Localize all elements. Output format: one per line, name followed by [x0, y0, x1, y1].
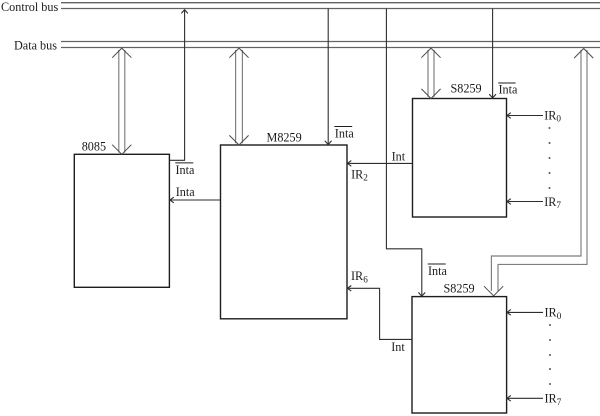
- svg-text:Control bus: Control bus: [1, 0, 58, 14]
- svg-text:8085: 8085: [82, 140, 106, 154]
- svg-text:S8259: S8259: [444, 281, 475, 295]
- svg-text:IR0: IR0: [545, 306, 562, 321]
- svg-text:Inta: Inta: [428, 264, 448, 278]
- svg-text:IR2: IR2: [351, 167, 368, 182]
- svg-text:Inta: Inta: [335, 126, 355, 140]
- svg-text:IR0: IR0: [544, 108, 561, 123]
- svg-text:Data bus: Data bus: [14, 38, 57, 52]
- svg-text:Inta: Inta: [176, 185, 196, 199]
- svg-text:IR6: IR6: [351, 269, 368, 284]
- svg-text:Int: Int: [391, 340, 405, 354]
- svg-text:Inta: Inta: [499, 83, 519, 97]
- svg-text:S8259: S8259: [451, 82, 482, 96]
- svg-text:IR7: IR7: [545, 391, 562, 406]
- svg-text:Inta: Inta: [176, 163, 196, 177]
- svg-text:IR7: IR7: [544, 195, 561, 210]
- svg-text:Int: Int: [392, 150, 406, 164]
- svg-text:M8259: M8259: [267, 131, 302, 145]
